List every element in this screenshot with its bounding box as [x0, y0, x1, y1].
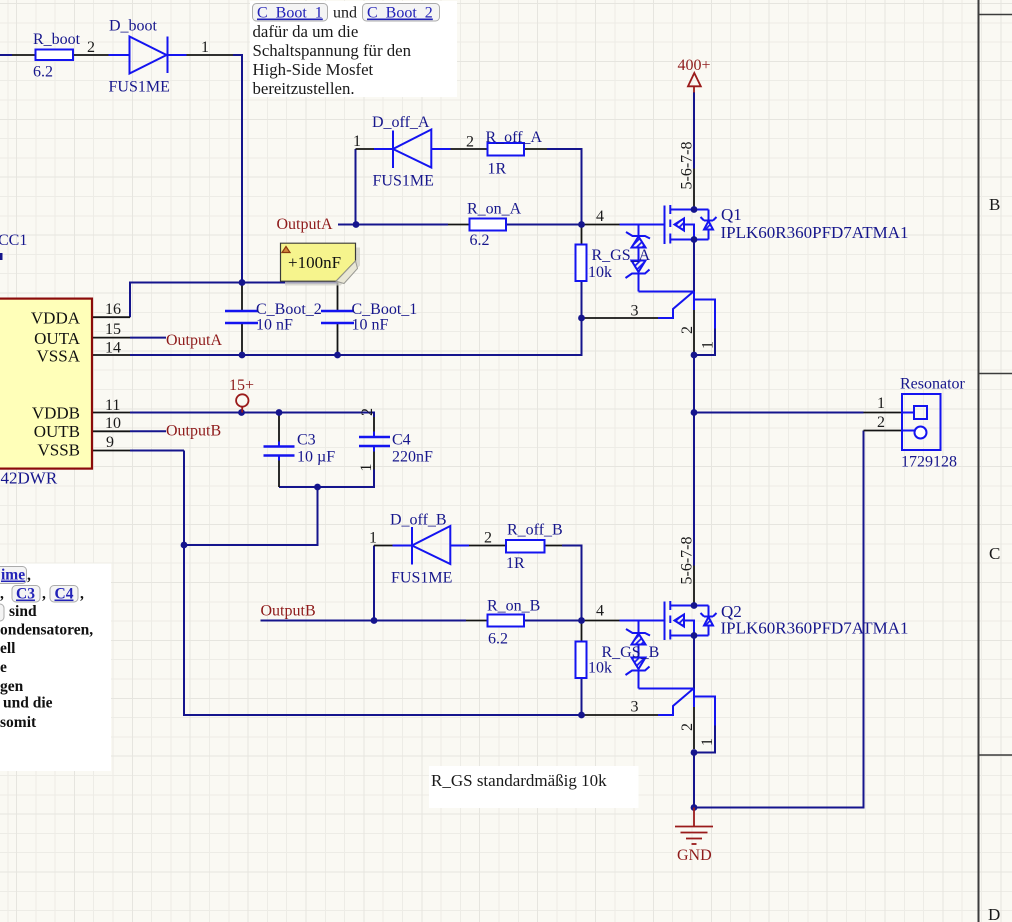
- svg-text:sind: sind: [9, 603, 37, 620]
- svg-text:C_Boot_1: C_Boot_1: [257, 5, 323, 22]
- svg-text:High-Side Mosfet: High-Side Mosfet: [253, 60, 374, 79]
- svg-text:OUTB: OUTB: [34, 422, 80, 441]
- svg-text:1: 1: [201, 39, 209, 56]
- svg-text:GND: GND: [677, 847, 712, 864]
- svg-text:15: 15: [105, 321, 121, 338]
- svg-text:C4: C4: [55, 586, 74, 603]
- svg-text:und die: und die: [3, 695, 53, 712]
- svg-text:6.2: 6.2: [33, 64, 53, 81]
- svg-text:2: 2: [466, 134, 474, 151]
- svg-text:11: 11: [105, 397, 120, 414]
- svg-text:ime: ime: [1, 567, 25, 584]
- svg-text:3: 3: [631, 699, 639, 716]
- svg-text:dafür da um die: dafür da um die: [253, 22, 359, 41]
- svg-text:R_GS standardmäßig 10k: R_GS standardmäßig 10k: [431, 771, 607, 790]
- svg-text:10k: 10k: [588, 264, 612, 281]
- svg-text:R_on_B: R_on_B: [487, 598, 540, 615]
- svg-text:4: 4: [596, 208, 604, 225]
- svg-text:220nF: 220nF: [392, 449, 433, 466]
- svg-text:R_boot: R_boot: [33, 31, 81, 48]
- svg-text:D_off_B: D_off_B: [390, 512, 447, 529]
- svg-text:,: ,: [0, 586, 4, 603]
- svg-text:6.2: 6.2: [470, 232, 490, 249]
- svg-text:6.2: 6.2: [488, 631, 508, 648]
- svg-text:gen: gen: [0, 678, 24, 695]
- svg-text:C_Boot_2: C_Boot_2: [256, 301, 322, 318]
- svg-text:e: e: [0, 659, 7, 676]
- svg-text:VDDB: VDDB: [32, 404, 80, 423]
- svg-text:R_off_A: R_off_A: [486, 129, 543, 146]
- svg-text:Q1: Q1: [721, 205, 742, 224]
- svg-text:bereitzustellen.: bereitzustellen.: [253, 79, 355, 98]
- svg-text:R_GS_B: R_GS_B: [602, 644, 660, 661]
- svg-text:3: 3: [631, 303, 639, 320]
- svg-text:FUS1ME: FUS1ME: [373, 173, 434, 190]
- svg-text:OutputB: OutputB: [261, 603, 316, 620]
- svg-text:C4: C4: [392, 432, 411, 449]
- svg-text:1R: 1R: [506, 555, 525, 572]
- svg-text:542DWR: 542DWR: [0, 469, 58, 488]
- svg-text:C3: C3: [297, 432, 316, 449]
- svg-text:R_GS_A: R_GS_A: [592, 247, 651, 264]
- svg-text:4: 4: [596, 603, 604, 620]
- svg-text:FUS1ME: FUS1ME: [391, 570, 452, 587]
- svg-text:OutputA: OutputA: [166, 332, 222, 349]
- svg-text:,: ,: [27, 567, 31, 584]
- svg-text:ell: ell: [0, 640, 16, 657]
- svg-text:FUS1ME: FUS1ME: [109, 79, 170, 96]
- svg-text:OutputB: OutputB: [166, 423, 221, 440]
- svg-text:2: 2: [877, 414, 885, 431]
- svg-text:und: und: [333, 5, 357, 22]
- svg-text:5-6-7-8: 5-6-7-8: [679, 537, 696, 585]
- svg-text:Schaltspannung für den: Schaltspannung für den: [253, 41, 412, 60]
- svg-text:B: B: [989, 195, 1000, 214]
- svg-text:2: 2: [484, 530, 492, 547]
- svg-text:1729128: 1729128: [901, 454, 957, 471]
- svg-text:C_Boot_2: C_Boot_2: [367, 5, 433, 22]
- svg-text:10 µF: 10 µF: [297, 449, 335, 466]
- svg-text:D_off_A: D_off_A: [372, 114, 430, 131]
- svg-text:C_Boot_1: C_Boot_1: [352, 301, 418, 318]
- svg-text:1: 1: [358, 464, 375, 472]
- svg-text:VSSB: VSSB: [37, 441, 80, 460]
- svg-text:somit: somit: [0, 714, 37, 731]
- svg-text:,: ,: [80, 586, 84, 603]
- svg-text:10 nF: 10 nF: [256, 317, 293, 334]
- svg-text:400+: 400+: [678, 57, 711, 74]
- svg-text:5-6-7-8: 5-6-7-8: [679, 142, 696, 190]
- svg-text:2: 2: [359, 408, 376, 416]
- svg-text:1: 1: [699, 738, 716, 746]
- svg-text:16: 16: [105, 301, 121, 318]
- svg-text:IPLK60R360PFD7ATMA1: IPLK60R360PFD7ATMA1: [721, 223, 909, 242]
- svg-text:1: 1: [369, 530, 377, 547]
- svg-text:,: ,: [42, 586, 46, 603]
- svg-text:10 nF: 10 nF: [352, 317, 389, 334]
- svg-text:VDDA: VDDA: [31, 309, 81, 328]
- svg-text:10k: 10k: [588, 660, 612, 677]
- svg-text:C3: C3: [16, 586, 35, 603]
- svg-text:R_on_A: R_on_A: [467, 201, 522, 218]
- svg-text:1: 1: [353, 133, 361, 150]
- svg-text:2: 2: [679, 723, 696, 731]
- svg-text:IPLK60R360PFD7ATMA1: IPLK60R360PFD7ATMA1: [721, 619, 909, 638]
- svg-text:ondensatoren,: ondensatoren,: [0, 622, 93, 639]
- svg-text:15+: 15+: [229, 377, 254, 394]
- svg-text:2: 2: [679, 326, 696, 334]
- svg-text:+100nF: +100nF: [288, 253, 341, 272]
- svg-text:R_off_B: R_off_B: [507, 522, 563, 539]
- svg-text:D: D: [988, 905, 1000, 922]
- svg-text:9: 9: [106, 434, 114, 451]
- svg-text:14: 14: [105, 340, 121, 357]
- svg-text:1: 1: [700, 341, 717, 349]
- svg-text:2: 2: [87, 39, 95, 56]
- svg-text:10: 10: [105, 415, 121, 432]
- svg-text:C: C: [989, 544, 1000, 563]
- svg-text:1: 1: [877, 395, 885, 412]
- svg-text:VSSA: VSSA: [37, 347, 81, 366]
- svg-text:OUTA: OUTA: [34, 329, 81, 348]
- svg-text:CC1: CC1: [0, 232, 27, 249]
- svg-text:Resonator: Resonator: [900, 376, 966, 393]
- svg-text:OutputA: OutputA: [277, 216, 333, 233]
- svg-text:D_boot: D_boot: [109, 18, 158, 35]
- svg-text:1R: 1R: [488, 161, 507, 178]
